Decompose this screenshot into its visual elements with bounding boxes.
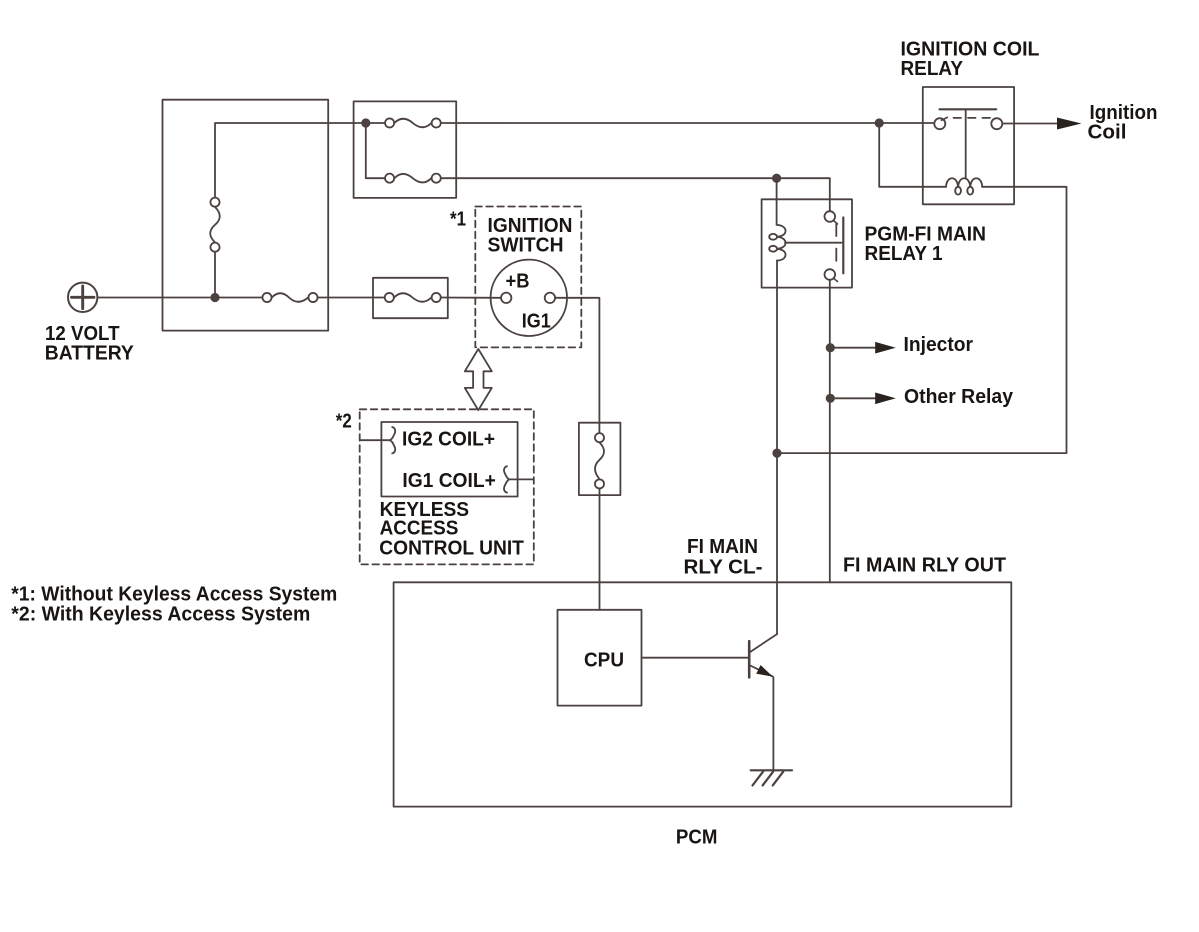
arrow to ignition coil (1057, 118, 1082, 130)
wire FI MAIN RLY CL- (collector up to relay coil) (776, 582, 778, 634)
ignition switch S1 (dashed boundary) (475, 207, 581, 348)
node B junction dot (top fuse box feed) (361, 118, 370, 127)
relay K2 dashed actuator line (954, 117, 991, 119)
fuse F6 (vertical fuse to CPU) (595, 433, 604, 488)
wire relay K2 output to ignition coil (1003, 123, 1058, 125)
svg-text:*1: Without Keyless Access Sys: *1: Without Keyless Access System (11, 584, 337, 606)
relay K1 bottom contact (825, 269, 836, 280)
relay K1 coil (vertical) (769, 225, 785, 261)
svg-text:FI MAIN: FI MAIN (687, 536, 758, 558)
relay K1 contact plate (842, 218, 844, 274)
fuse F3 (horizontal fuse in small box) (385, 293, 441, 302)
node G junction dot (other relay tap) (826, 394, 835, 403)
fuse F5 (second top fuse) (385, 174, 441, 183)
relay K2 contact support bar (940, 108, 997, 110)
svg-text:RELAY 1: RELAY 1 (865, 243, 943, 265)
svg-text:SWITCH: SWITCH (488, 234, 564, 256)
wire top corner to top fuse box (215, 123, 366, 197)
wire node C down to relay K2 coil (879, 123, 946, 187)
svg-text:*2: *2 (336, 410, 352, 432)
svg-text:IG2 COIL+: IG2 COIL+ (402, 429, 495, 451)
svg-text:RLY CL-: RLY CL- (684, 557, 763, 579)
fuse F4 (top fuse, main line) (370, 118, 440, 127)
wire fuse F3 to ignition switch +B (441, 297, 501, 299)
transistor Q1 (NPN) (749, 634, 777, 677)
svg-text:Injector: Injector (904, 334, 974, 356)
ground (chassis) (751, 770, 792, 785)
node F junction dot (injector tap) (826, 343, 835, 352)
svg-text:CONTROL UNIT: CONTROL UNIT (379, 537, 524, 559)
relay K2 coil (horizontal) (946, 178, 982, 194)
fuse F2 (horizontal fuse on battery feed) (262, 293, 317, 302)
ignition switch rotor circle (491, 260, 567, 336)
ignition coil relay box (923, 87, 1014, 204)
IG1 coil squiggle (504, 466, 509, 492)
keyless unit inner box (381, 422, 517, 497)
terminal IG1 (545, 293, 555, 303)
fuse F1 (vertical fuse in fuse box) (210, 198, 220, 252)
node C junction dot (875, 118, 884, 127)
wire IG1 stub (509, 478, 533, 480)
relay K2 left contact (934, 118, 945, 129)
wire fuse F6 to CPU (599, 489, 601, 610)
relay K2 right contact (991, 118, 1002, 129)
IG2 coil squiggle (390, 427, 395, 453)
svg-text:FI MAIN RLY OUT: FI MAIN RLY OUT (843, 554, 1006, 576)
svg-text:12 VOLT: 12 VOLT (45, 323, 120, 345)
terminal +B (501, 293, 511, 303)
node E junction dot (relay coils common) (772, 449, 781, 458)
svg-text:CPU: CPU (584, 650, 624, 672)
svg-text:Coil: Coil (1088, 122, 1127, 144)
wire fuse F2 to fuse box F3 (318, 297, 385, 299)
arrow to other relay (830, 397, 876, 399)
svg-text:BATTERY: BATTERY (45, 343, 135, 365)
arrow to injector (830, 347, 876, 349)
node D junction dot (PGM-FI coil tap) (772, 174, 781, 183)
relay K1 armature link (785, 242, 842, 244)
keyless access control unit (dashed boundary) (360, 409, 534, 564)
wire IG1 to fuse F6 (555, 298, 599, 433)
wire main feed to ignition coil relay (441, 122, 934, 124)
fuse box (under-hood fuse/relay box) (163, 100, 329, 331)
wire battery to junction A (97, 297, 262, 299)
connector double arrow between switch and keyless unit (465, 349, 492, 410)
relay K2 armature link (965, 109, 967, 178)
top fuse box (relay/fuse block) (354, 101, 457, 197)
fuse box 2 (small) (373, 278, 448, 318)
svg-text:*2: With Keyless Access System: *2: With Keyless Access System (11, 603, 310, 625)
svg-text:IG1 COIL+: IG1 COIL+ (402, 470, 495, 492)
svg-text:Other Relay: Other Relay (904, 386, 1014, 408)
fuse box 3 (small, to CPU) (579, 423, 621, 495)
svg-text:+B: +B (506, 271, 530, 293)
wire IG2 stub (360, 439, 390, 441)
PCM box (394, 582, 1012, 806)
wire relay K1 output (FI MAIN RLY OUT) (829, 280, 831, 582)
PGM-FI main relay 1 box (762, 199, 852, 287)
wire emitter to ground (772, 677, 774, 770)
svg-text:ACCESS: ACCESS (380, 517, 459, 539)
node A junction dot (210, 293, 219, 302)
wire fuse F5 to PGM-FI relay contact (441, 178, 830, 211)
CPU box (558, 610, 642, 706)
svg-text:IG1: IG1 (522, 310, 551, 332)
battery B1 (12 VOLT BATTERY) (68, 283, 97, 312)
relay K1 top contact (825, 211, 836, 222)
relay K1 dashed actuator line (835, 224, 837, 264)
svg-text:RELAY: RELAY (901, 58, 964, 80)
wire ignition coil relay coil return (777, 187, 1067, 453)
wire node B down to fuse F5 (366, 123, 385, 178)
wire fuse F1 bottom to junction A (214, 252, 216, 298)
svg-text:PCM: PCM (676, 827, 718, 849)
wire relay K2 coil right to return (982, 186, 1014, 188)
svg-text:*1: *1 (450, 208, 466, 230)
wire CPU to transistor base (642, 657, 749, 659)
